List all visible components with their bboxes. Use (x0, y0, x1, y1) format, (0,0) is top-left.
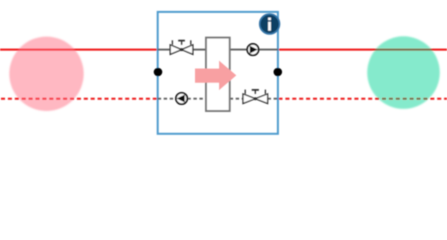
info icon (260, 14, 280, 34)
wire (pump P2 to body, dashed) (187, 98, 206, 100)
wire (valve V2 to port, dashed) (268, 98, 278, 100)
node A (left highlight blob) (9, 37, 83, 111)
wire (port to valve V1) (158, 49, 171, 51)
component boundary U1 (selection box) (158, 12, 278, 134)
wire (port to pump P2, dashed) (158, 98, 176, 100)
pump P1 (247, 44, 258, 55)
node B (right highlight blob) (367, 36, 440, 109)
wire (body to valve V2, dashed) (230, 98, 243, 100)
pump P2 (176, 93, 187, 104)
node (left port junction) (154, 68, 163, 77)
wire (return line dashed, left segment) (1, 98, 158, 100)
wire (return line dashed, right segment) (279, 98, 447, 100)
valve V2 (243, 90, 268, 104)
wire (valve V1 to body) (193, 49, 206, 51)
body (component rectangle) (206, 38, 230, 111)
wire (supply line, left segment) (0, 49, 158, 51)
wire (supply line, right segment) (278, 49, 447, 51)
flow arrow (195, 61, 236, 91)
node (right port junction) (274, 68, 283, 77)
wire (body to pump P1) (230, 49, 247, 51)
valve V1 (170, 40, 193, 54)
wire (pump P1 to port) (259, 49, 278, 51)
